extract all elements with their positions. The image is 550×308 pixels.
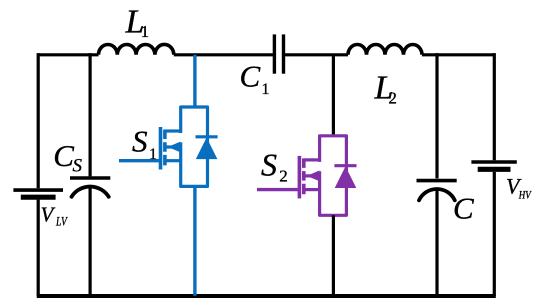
transistor S1 body stub and arrow <box>166 142 181 151</box>
svg-text:HV: HV <box>518 189 532 201</box>
label V_LV <box>41 203 68 229</box>
label C_S <box>53 138 82 177</box>
wire C_S branch <box>88 53 91 296</box>
label C1 <box>240 59 270 98</box>
capacitor C_S <box>70 178 110 197</box>
label V_HV <box>506 173 532 201</box>
wire left rail <box>37 53 40 296</box>
transistor S2 MOSFET gate bar <box>298 156 302 199</box>
wire S2 gate lead <box>257 188 300 191</box>
transistor S2 body stub and arrow <box>305 171 320 180</box>
wire top rail <box>38 53 494 56</box>
inductor L1 <box>99 44 174 54</box>
wire C branch <box>435 53 438 296</box>
transistor S1 drain stub <box>166 129 181 132</box>
transistor S2 body frame <box>320 136 347 216</box>
battery V_LV <box>13 190 63 197</box>
label L2 <box>374 70 397 108</box>
label L1 <box>125 4 150 41</box>
inductor L2 <box>348 45 422 55</box>
svg-text:2: 2 <box>279 166 288 185</box>
svg-text:C: C <box>453 191 474 226</box>
svg-text:1: 1 <box>262 81 270 98</box>
capacitor C1 <box>274 34 283 73</box>
diode D2 (antiparallel, in S2) <box>334 166 356 188</box>
svg-text:1: 1 <box>141 22 150 41</box>
transistor S1 source stub <box>166 159 181 162</box>
transistor S2 MOSFET channel segments <box>302 158 306 194</box>
wire bottom rail <box>37 294 496 298</box>
svg-text:C: C <box>53 138 74 173</box>
transistor S1 MOSFET gate bar <box>159 127 163 170</box>
wire S1 gate lead <box>119 159 161 162</box>
wire S1 drain lead (blue) <box>193 55 196 109</box>
svg-text:1: 1 <box>149 146 157 163</box>
transistor S1 MOSFET channel segments <box>163 130 167 166</box>
svg-text:S: S <box>132 124 148 159</box>
svg-text:C: C <box>240 59 261 94</box>
diode D1 (antiparallel, in S1) <box>196 137 218 159</box>
label C <box>453 191 474 226</box>
svg-text:LV: LV <box>55 215 68 229</box>
wire S2 source lead (black) <box>332 215 335 295</box>
svg-text:2: 2 <box>388 89 397 108</box>
transistor S1 body frame <box>181 107 208 186</box>
label S2 <box>261 147 288 186</box>
wire S1 source lead (blue) <box>193 186 196 295</box>
svg-text:V: V <box>41 203 56 227</box>
svg-text:S: S <box>261 147 277 183</box>
transistor S2 drain stub <box>305 158 320 161</box>
wire S2 drain lead (black) <box>332 55 335 137</box>
wire right rail <box>493 53 496 296</box>
battery V_HV <box>471 162 516 169</box>
svg-text:S: S <box>73 156 83 177</box>
label S1 <box>132 124 157 163</box>
transistor S2 source stub <box>305 188 320 191</box>
capacitor C <box>417 181 457 201</box>
